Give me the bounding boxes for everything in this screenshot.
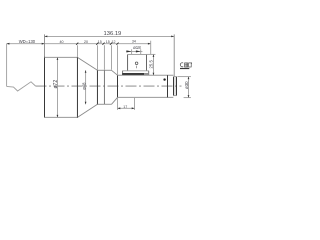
centerline (optical axis) [36, 85, 182, 87]
extension above at 117.5 [117, 45, 119, 74]
C-mount thread top edge [173, 76, 177, 78]
17 text [123, 105, 127, 109]
o30 text rotated [184, 81, 189, 89]
WD dimension line [7, 43, 151, 45]
svg-text:20: 20 [84, 40, 88, 44]
total right arrow [171, 36, 174, 38]
svg-text:ø18: ø18 [133, 45, 141, 50]
rear dim line [188, 77, 190, 98]
C-mount thread left edge [173, 77, 175, 96]
WD right arrow [42, 43, 45, 45]
shoulder chamfer bottom [112, 97, 118, 104]
front barrel bottom edge [45, 116, 78, 118]
o48 top arrow [85, 70, 87, 73]
25.5 bottom arrow [153, 73, 155, 76]
extension above at 77 [76, 45, 78, 57]
svg-text:ø72: ø72 [53, 80, 59, 89]
tick at 117.5 [116, 43, 118, 45]
o48 dim line [85, 70, 87, 104]
shoulder chamfer top [112, 70, 118, 75]
svg-text:40: 40 [60, 40, 64, 44]
dim text 12 [112, 40, 116, 44]
svg-text:15: 15 [106, 40, 110, 44]
total left arrow [45, 36, 48, 38]
rear tube bottom edge [118, 96, 174, 98]
o72 text rotated [53, 80, 59, 89]
17 dim extension left [117, 98, 119, 110]
dim text 15 a [98, 40, 102, 44]
dim text 15 b [106, 40, 110, 44]
top box left edge [127, 54, 129, 70]
step face [117, 75, 119, 97]
o18 text [133, 45, 141, 50]
o72 dim line [56, 57, 58, 117]
tick at 111 [110, 43, 112, 45]
cone bottom slant [77, 104, 97, 117]
C-mount label text [180, 63, 191, 68]
rear tube top edge [118, 74, 174, 76]
o18 arrow left [126, 50, 131, 52]
17 left arrow [118, 107, 121, 109]
extension above at 104.4 [103, 45, 105, 70]
o72 bottom arrow [57, 115, 59, 118]
rear dim bottom arrow [188, 95, 190, 98]
cone top slant [77, 57, 97, 70]
front barrel right edge [76, 57, 78, 118]
tick at 97 [96, 43, 98, 45]
set screw dot [163, 78, 165, 80]
total dim line 136.19 [45, 35, 175, 37]
25.5 top extension tick [146, 53, 155, 55]
top box top edge [128, 53, 147, 55]
hole centerline dash [136, 66, 138, 69]
o18 bore stub left [131, 49, 133, 54]
C-mount thread bottom edge [173, 95, 177, 97]
25.5 text rotated [149, 60, 154, 69]
extension at 150.7 [150, 41, 152, 54]
svg-text:136.19: 136.19 [104, 31, 122, 37]
hole circle in top box [135, 62, 138, 65]
dim text 20 [84, 40, 88, 44]
front barrel top edge [45, 56, 78, 58]
svg-text:15: 15 [98, 40, 102, 44]
25.5 top arrow [153, 54, 155, 57]
flange bottom band light right part [144, 73, 149, 75]
svg-text:ø30: ø30 [184, 81, 189, 89]
rear ring edge [167, 75, 169, 97]
svg-text:12: 12 [112, 40, 116, 44]
svg-text:WD=130: WD=130 [19, 39, 36, 44]
25.5 dim line [152, 54, 154, 75]
C-mount thread right edge [175, 77, 177, 96]
front barrel left edge [44, 57, 46, 118]
svg-text:ø48: ø48 [82, 82, 87, 90]
dim text 40 [60, 40, 64, 44]
svg-text:34: 34 [132, 40, 136, 44]
WD left arrow [7, 43, 10, 45]
o18 arrow right [136, 50, 141, 52]
svg-text:17: 17 [123, 105, 127, 109]
middle cylinder internal edge [103, 70, 105, 104]
flange right edge [148, 71, 150, 75]
o72 top arrow [57, 57, 59, 60]
17 dim line [118, 107, 135, 109]
rear dim top arrow [188, 77, 190, 80]
dim text 34 [132, 40, 136, 44]
extension at 44.5 above [44, 34, 46, 56]
rear dim bottom tick [184, 97, 191, 99]
extension at 174 [173, 34, 175, 76]
flange dark bottom band [122, 73, 144, 75]
middle cylinder left edge [96, 70, 98, 105]
17 dim extension right [134, 98, 136, 110]
flange top edge [122, 70, 149, 72]
o48 text rotated [82, 82, 87, 90]
o48 bottom arrow [85, 102, 87, 105]
o18 dim line [126, 50, 142, 52]
136.19 text [104, 31, 122, 37]
rear dim top tick [177, 76, 191, 78]
o18 bore stub right [140, 49, 142, 54]
extension above at 97 [96, 45, 98, 70]
object plane extension line [6, 44, 8, 87]
top box right edge [145, 54, 147, 70]
flange left edge [122, 71, 124, 75]
middle cylinder top edge [97, 69, 111, 71]
tick at 103.5 [102, 43, 104, 45]
tick at 77 [76, 43, 78, 45]
extension above at 111.5 [111, 45, 113, 70]
WD=130 text [19, 39, 36, 44]
middle cylinder bottom edge [97, 103, 111, 105]
break zigzag of optical axis [7, 82, 36, 91]
17 right arrow [132, 107, 135, 109]
C-mount label underline [180, 68, 189, 69]
svg-text:25.5: 25.5 [149, 60, 154, 69]
chain right arrow [148, 43, 151, 45]
